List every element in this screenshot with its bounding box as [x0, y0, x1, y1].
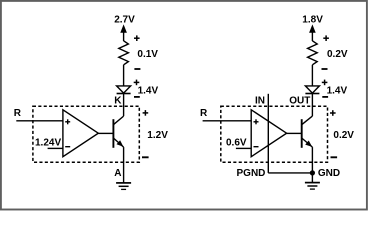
label + of 1.4V (right): [322, 80, 328, 86]
label - of 0.1V: [134, 68, 140, 70]
wire resistor to LED (right): [311, 65, 313, 86]
svg-text:IN: IN: [255, 96, 265, 107]
label + of 0.2V (side): [330, 110, 336, 116]
svg-text:2.7V: 2.7V: [114, 14, 135, 25]
ground (left): [116, 183, 131, 190]
wire 0.6V to inverting input: [236, 147, 251, 149]
wire junction to ground symbol: [311, 173, 313, 183]
dashed box left device: [33, 106, 139, 162]
svg-text:0.2V: 0.2V: [333, 130, 354, 141]
label + of 0.2V: [323, 35, 329, 41]
svg-text:0.6V: 0.6V: [226, 138, 247, 149]
svg-text:R: R: [14, 108, 22, 119]
LED diode (left), cathode K: [117, 86, 131, 94]
ground (right): [305, 183, 320, 190]
wire op-amp output to base (right): [287, 132, 302, 134]
svg-text:1.2V: 1.2V: [147, 130, 168, 141]
dashed box right device: [221, 106, 328, 162]
wire op-amp output to base (left): [98, 132, 113, 134]
svg-text:1.24V: 1.24V: [35, 138, 61, 149]
wire LED to collector: [123, 94, 125, 117]
LED diode (right): [305, 86, 319, 94]
svg-text:K: K: [114, 96, 122, 107]
op-amp U1 (left): [63, 110, 98, 157]
wire R to op-amp + input (right): [203, 120, 252, 122]
label + of 1.4V (left): [134, 80, 140, 86]
op-amp U2 (right): [251, 110, 286, 157]
transistor Q1 (left NPN): [113, 116, 123, 148]
supply arrow (2.7V rail): [120, 24, 127, 41]
wire emitter to ground (left): [123, 147, 125, 183]
svg-text:GND: GND: [318, 168, 340, 179]
wire PGND rail: [268, 172, 312, 174]
label - of 1.4V (right): [322, 96, 328, 98]
label + of 0.1V: [134, 35, 140, 41]
svg-text:1.4V: 1.4V: [327, 86, 348, 97]
wire emitter to GND junction (right): [311, 147, 313, 173]
svg-text:A: A: [114, 168, 121, 179]
svg-text:1.4V: 1.4V: [138, 86, 159, 97]
label - of 0.2V (top): [322, 68, 328, 70]
svg-text:0.1V: 0.1V: [137, 49, 158, 60]
resistor (0.2V drop), right circuit: [308, 41, 318, 65]
wire R to op-amp + input (left): [16, 120, 63, 122]
label - of 1.2V: [142, 156, 149, 158]
label - of 0.2V (side): [331, 156, 338, 158]
wire OUT/LED to collector (right): [311, 94, 313, 117]
resistor (0.1V drop), left circuit: [119, 41, 129, 65]
transistor Q2 (right NPN): [302, 116, 313, 148]
junction dot GND node: [310, 170, 315, 175]
wire resistor to LED: [123, 65, 125, 86]
supply arrow (1.8V rail): [309, 24, 316, 41]
svg-text:1.8V: 1.8V: [302, 14, 323, 25]
svg-text:0.2V: 0.2V: [327, 49, 348, 60]
label - of 1.4V (left): [134, 96, 140, 98]
label + of 1.2V: [143, 110, 149, 116]
wire IN down to PGND rail: [267, 94, 269, 173]
svg-text:OUT: OUT: [289, 96, 310, 107]
wire 1.24V to inverting input: [48, 147, 63, 149]
svg-text:R: R: [200, 108, 208, 119]
svg-text:PGND: PGND: [237, 168, 266, 179]
